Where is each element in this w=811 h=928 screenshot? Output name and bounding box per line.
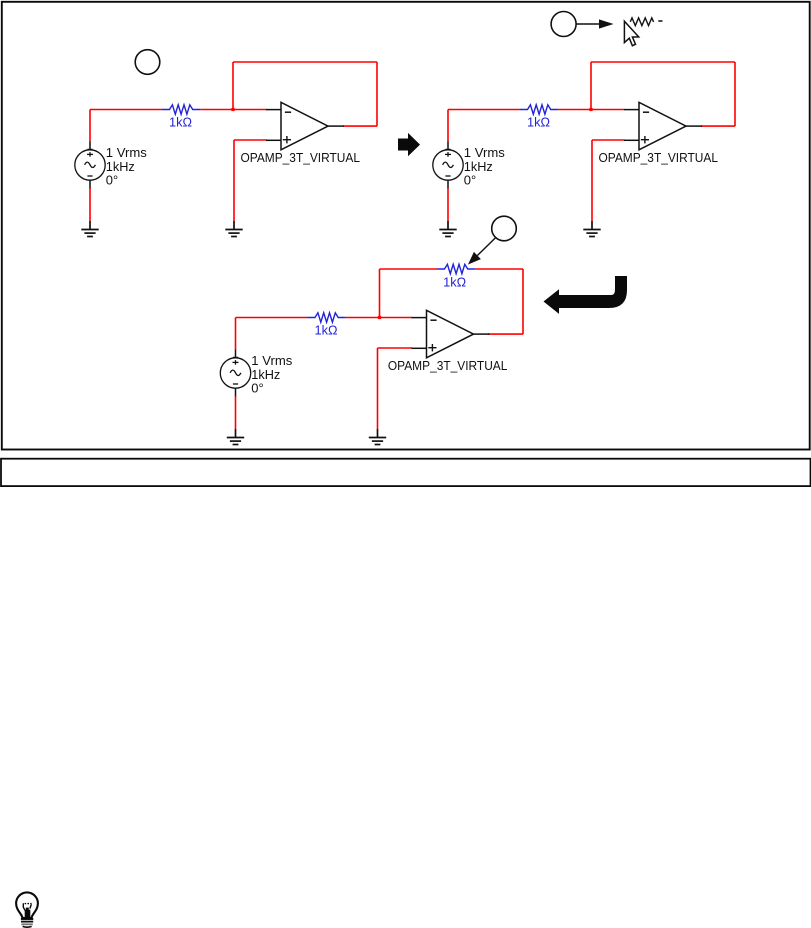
- svg-text:0°: 0°: [251, 382, 263, 396]
- svg-text:OPAMP_3T_VIRTUAL: OPAMP_3T_VIRTUAL: [388, 359, 508, 373]
- svg-text:1kΩ: 1kΩ: [315, 324, 338, 338]
- svg-text:1 Vrms: 1 Vrms: [251, 354, 292, 368]
- svg-text:1kΩ: 1kΩ: [443, 275, 466, 289]
- svg-text:1kHz: 1kHz: [251, 368, 280, 382]
